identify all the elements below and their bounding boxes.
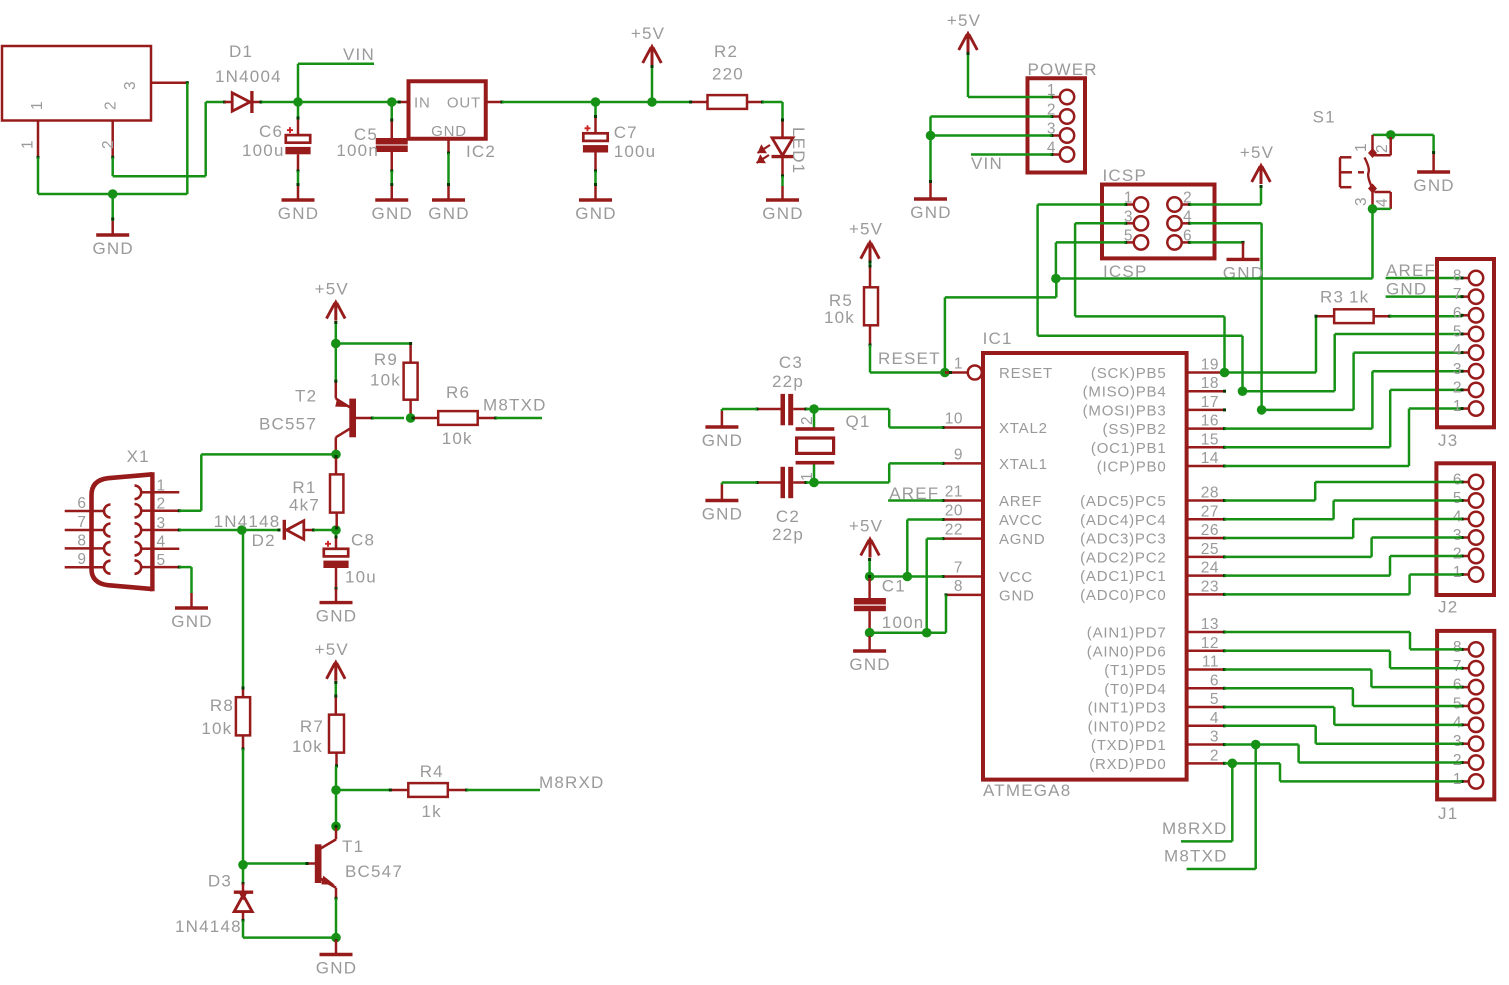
svg-text:1k: 1k — [1349, 288, 1369, 307]
svg-text:M8RXD: M8RXD — [1162, 819, 1228, 838]
svg-text:2: 2 — [1453, 546, 1462, 563]
svg-text:(T1)PD5: (T1)PD5 — [1104, 662, 1166, 679]
svg-text:10u: 10u — [345, 568, 377, 587]
svg-text:GND: GND — [93, 239, 134, 258]
svg-text:+5V: +5V — [631, 24, 665, 43]
svg-text:S1: S1 — [1313, 108, 1336, 127]
svg-text:1: 1 — [1353, 143, 1370, 152]
svg-text:1: 1 — [20, 140, 37, 149]
svg-text:28: 28 — [1201, 485, 1219, 502]
svg-text:(MISO)PB4: (MISO)PB4 — [1083, 384, 1167, 401]
svg-text:10k: 10k — [442, 429, 473, 448]
svg-text:8: 8 — [1453, 268, 1462, 285]
svg-text:(ADC0)PC0: (ADC0)PC0 — [1080, 587, 1166, 604]
svg-text:GND: GND — [575, 204, 616, 223]
svg-text:C6: C6 — [259, 122, 283, 141]
svg-text:BC547: BC547 — [345, 862, 403, 881]
svg-text:(INT0)PD2: (INT0)PD2 — [1088, 718, 1167, 735]
svg-text:10: 10 — [945, 411, 963, 428]
svg-text:GND: GND — [702, 431, 743, 450]
svg-text:GND: GND — [431, 123, 467, 140]
svg-text:6: 6 — [1210, 672, 1219, 689]
svg-text:10k: 10k — [824, 308, 855, 327]
svg-text:21: 21 — [945, 484, 963, 501]
svg-text:GND: GND — [1386, 280, 1427, 299]
svg-text:(ADC1)PC1: (ADC1)PC1 — [1080, 568, 1166, 585]
svg-text:R7: R7 — [300, 717, 324, 736]
svg-text:4: 4 — [1453, 714, 1462, 731]
svg-text:OUT: OUT — [447, 95, 481, 112]
svg-text:8: 8 — [77, 532, 86, 549]
svg-text:4: 4 — [1374, 198, 1391, 207]
svg-text:AGND: AGND — [999, 531, 1046, 548]
svg-text:IC1: IC1 — [983, 329, 1013, 348]
svg-text:220: 220 — [712, 65, 744, 84]
svg-text:5: 5 — [1453, 490, 1462, 507]
svg-text:R9: R9 — [374, 350, 398, 369]
svg-text:VIN: VIN — [343, 45, 375, 64]
svg-text:GND: GND — [999, 587, 1035, 604]
svg-text:100u: 100u — [242, 141, 285, 160]
svg-text:LED1: LED1 — [789, 127, 808, 174]
svg-text:2: 2 — [1453, 752, 1462, 769]
svg-text:2: 2 — [799, 416, 816, 425]
svg-text:(INT1)PD3: (INT1)PD3 — [1088, 700, 1167, 717]
svg-text:AREF: AREF — [999, 493, 1042, 510]
svg-text:10k: 10k — [201, 719, 232, 738]
svg-text:4: 4 — [157, 534, 166, 551]
svg-text:(SCK)PB5: (SCK)PB5 — [1091, 365, 1167, 382]
svg-text:(ADC2)PC2: (ADC2)PC2 — [1080, 549, 1166, 566]
svg-text:M8TXD: M8TXD — [483, 396, 547, 415]
svg-text:(ADC3)PC3: (ADC3)PC3 — [1080, 531, 1166, 548]
svg-text:5: 5 — [1453, 695, 1462, 712]
svg-text:GND: GND — [428, 204, 469, 223]
svg-text:RESET: RESET — [999, 365, 1053, 382]
svg-text:7: 7 — [1453, 658, 1462, 675]
svg-text:(RXD)PD0: (RXD)PD0 — [1089, 756, 1166, 773]
svg-text:R8: R8 — [210, 696, 234, 715]
svg-text:2: 2 — [100, 140, 117, 149]
svg-text:+5V: +5V — [315, 280, 349, 299]
svg-text:5: 5 — [1453, 323, 1462, 340]
svg-text:GND: GND — [316, 959, 357, 978]
svg-text:(MOSI)PB3: (MOSI)PB3 — [1083, 402, 1167, 419]
svg-text:XTAL1: XTAL1 — [999, 456, 1048, 473]
svg-text:4: 4 — [1210, 710, 1219, 727]
svg-text:9: 9 — [954, 446, 963, 463]
svg-text:2: 2 — [1374, 144, 1391, 153]
svg-text:+5V: +5V — [947, 11, 981, 30]
svg-text:BC557: BC557 — [259, 415, 317, 434]
svg-text:19: 19 — [1201, 357, 1219, 374]
svg-text:T2: T2 — [295, 387, 317, 406]
svg-text:ICSP: ICSP — [1103, 166, 1147, 185]
svg-text:7: 7 — [77, 514, 86, 531]
svg-text:6: 6 — [1453, 472, 1462, 489]
svg-text:VIN: VIN — [971, 154, 1003, 173]
svg-text:25: 25 — [1201, 541, 1219, 558]
svg-text:23: 23 — [1201, 578, 1219, 595]
svg-text:6: 6 — [77, 495, 86, 512]
svg-text:22: 22 — [945, 522, 963, 539]
svg-text:15: 15 — [1201, 431, 1219, 448]
svg-text:R3: R3 — [1320, 288, 1344, 307]
svg-text:4: 4 — [1453, 342, 1462, 359]
svg-text:3: 3 — [1210, 729, 1219, 746]
svg-text:XTAL2: XTAL2 — [999, 420, 1048, 437]
svg-text:8: 8 — [1453, 639, 1462, 656]
svg-text:C8: C8 — [351, 531, 375, 550]
svg-text:6: 6 — [1453, 677, 1462, 694]
svg-text:22p: 22p — [772, 372, 804, 391]
svg-text:2: 2 — [103, 101, 120, 110]
svg-text:(ICP)PB0: (ICP)PB0 — [1097, 459, 1167, 476]
svg-text:2: 2 — [157, 496, 166, 513]
svg-text:7: 7 — [1453, 286, 1462, 303]
svg-text:100u: 100u — [614, 142, 657, 161]
svg-text:(T0)PD4: (T0)PD4 — [1104, 681, 1166, 698]
svg-text:+5V: +5V — [1240, 143, 1274, 162]
svg-text:D1: D1 — [229, 42, 253, 61]
svg-text:IC2: IC2 — [466, 142, 496, 161]
svg-text:RESET: RESET — [878, 349, 941, 368]
svg-text:3: 3 — [1453, 527, 1462, 544]
svg-text:20: 20 — [945, 503, 963, 520]
svg-text:GND: GND — [1413, 176, 1454, 195]
svg-text:+5V: +5V — [849, 517, 883, 536]
svg-text:4k7: 4k7 — [289, 496, 320, 515]
svg-text:26: 26 — [1201, 522, 1219, 539]
svg-text:1N4148: 1N4148 — [175, 917, 242, 936]
svg-text:3: 3 — [1453, 733, 1462, 750]
svg-text:1: 1 — [157, 477, 166, 494]
svg-text:11: 11 — [1202, 654, 1219, 671]
svg-text:IN: IN — [414, 95, 431, 112]
svg-text:+5V: +5V — [315, 640, 349, 659]
svg-text:18: 18 — [1201, 375, 1219, 392]
svg-text:T1: T1 — [342, 837, 364, 856]
svg-text:27: 27 — [1201, 503, 1219, 520]
svg-text:AREF: AREF — [1386, 261, 1436, 280]
svg-text:10k: 10k — [370, 371, 401, 390]
svg-text:VCC: VCC — [999, 569, 1033, 586]
svg-text:3: 3 — [1453, 361, 1462, 378]
svg-text:M8TXD: M8TXD — [1164, 847, 1228, 866]
svg-text:1: 1 — [1453, 398, 1462, 415]
svg-text:R1: R1 — [292, 478, 316, 497]
svg-text:R6: R6 — [446, 383, 470, 402]
svg-text:(SS)PB2: (SS)PB2 — [1103, 421, 1167, 438]
svg-text:8: 8 — [954, 578, 963, 595]
svg-text:22p: 22p — [772, 525, 804, 544]
svg-text:1: 1 — [1453, 771, 1462, 788]
svg-text:14: 14 — [1201, 450, 1219, 467]
svg-text:J1: J1 — [1438, 804, 1458, 823]
svg-text:(OC1)PB1: (OC1)PB1 — [1091, 440, 1167, 457]
svg-text:(AIN1)PD7: (AIN1)PD7 — [1087, 625, 1167, 642]
svg-text:12: 12 — [1201, 635, 1219, 652]
svg-text:5: 5 — [157, 552, 166, 569]
svg-text:D2: D2 — [252, 531, 276, 550]
svg-text:C2: C2 — [776, 507, 800, 526]
svg-text:D3: D3 — [208, 872, 232, 891]
svg-text:GND: GND — [316, 607, 357, 626]
svg-text:GND: GND — [762, 204, 803, 223]
svg-text:(AIN0)PD6: (AIN0)PD6 — [1087, 643, 1167, 660]
svg-text:+5V: +5V — [849, 220, 883, 239]
svg-text:9: 9 — [77, 551, 86, 568]
svg-text:R4: R4 — [420, 762, 444, 781]
svg-text:J2: J2 — [1438, 598, 1458, 617]
svg-text:13: 13 — [1201, 616, 1219, 633]
svg-text:100n: 100n — [336, 141, 379, 160]
svg-text:R2: R2 — [714, 42, 738, 61]
svg-text:GND: GND — [702, 505, 743, 524]
svg-text:POWER: POWER — [1028, 60, 1098, 79]
svg-text:16: 16 — [1201, 413, 1219, 430]
svg-text:2: 2 — [1210, 747, 1219, 764]
svg-text:GND: GND — [278, 204, 319, 223]
svg-text:Q1: Q1 — [846, 412, 871, 431]
svg-text:J3: J3 — [1438, 431, 1458, 450]
svg-text:3: 3 — [157, 515, 166, 532]
svg-text:17: 17 — [1201, 394, 1219, 411]
svg-text:7: 7 — [954, 560, 963, 577]
svg-text:1k: 1k — [422, 802, 442, 821]
svg-text:C7: C7 — [614, 123, 638, 142]
svg-text:AVCC: AVCC — [999, 512, 1043, 529]
svg-text:GND: GND — [849, 655, 890, 674]
svg-text:1N4148: 1N4148 — [214, 512, 281, 531]
svg-text:AREF: AREF — [889, 484, 939, 503]
svg-text:C1: C1 — [882, 577, 906, 596]
svg-text:24: 24 — [1201, 560, 1219, 577]
svg-text:(TXD)PD1: (TXD)PD1 — [1091, 737, 1167, 754]
svg-text:(ADC4)PC4: (ADC4)PC4 — [1080, 512, 1166, 529]
svg-text:4: 4 — [1453, 509, 1462, 526]
svg-text:100n: 100n — [882, 613, 925, 632]
svg-text:2: 2 — [1453, 379, 1462, 396]
svg-text:ATMEGA8: ATMEGA8 — [983, 781, 1071, 800]
svg-text:GND: GND — [171, 612, 212, 631]
svg-text:3: 3 — [122, 81, 139, 90]
svg-text:M8RXD: M8RXD — [539, 773, 605, 792]
svg-text:3: 3 — [1353, 197, 1370, 206]
svg-text:X1: X1 — [127, 447, 150, 466]
svg-text:1: 1 — [29, 101, 46, 110]
svg-text:GND: GND — [910, 203, 951, 222]
svg-text:5: 5 — [1210, 691, 1219, 708]
svg-text:GND: GND — [372, 204, 413, 223]
svg-text:(ADC5)PC5: (ADC5)PC5 — [1080, 493, 1166, 510]
svg-text:6: 6 — [1453, 305, 1462, 322]
svg-text:1: 1 — [954, 356, 963, 373]
svg-text:1N4004: 1N4004 — [215, 67, 282, 86]
svg-text:10k: 10k — [292, 737, 323, 756]
svg-text:C3: C3 — [779, 353, 803, 372]
svg-text:1: 1 — [1453, 564, 1462, 581]
